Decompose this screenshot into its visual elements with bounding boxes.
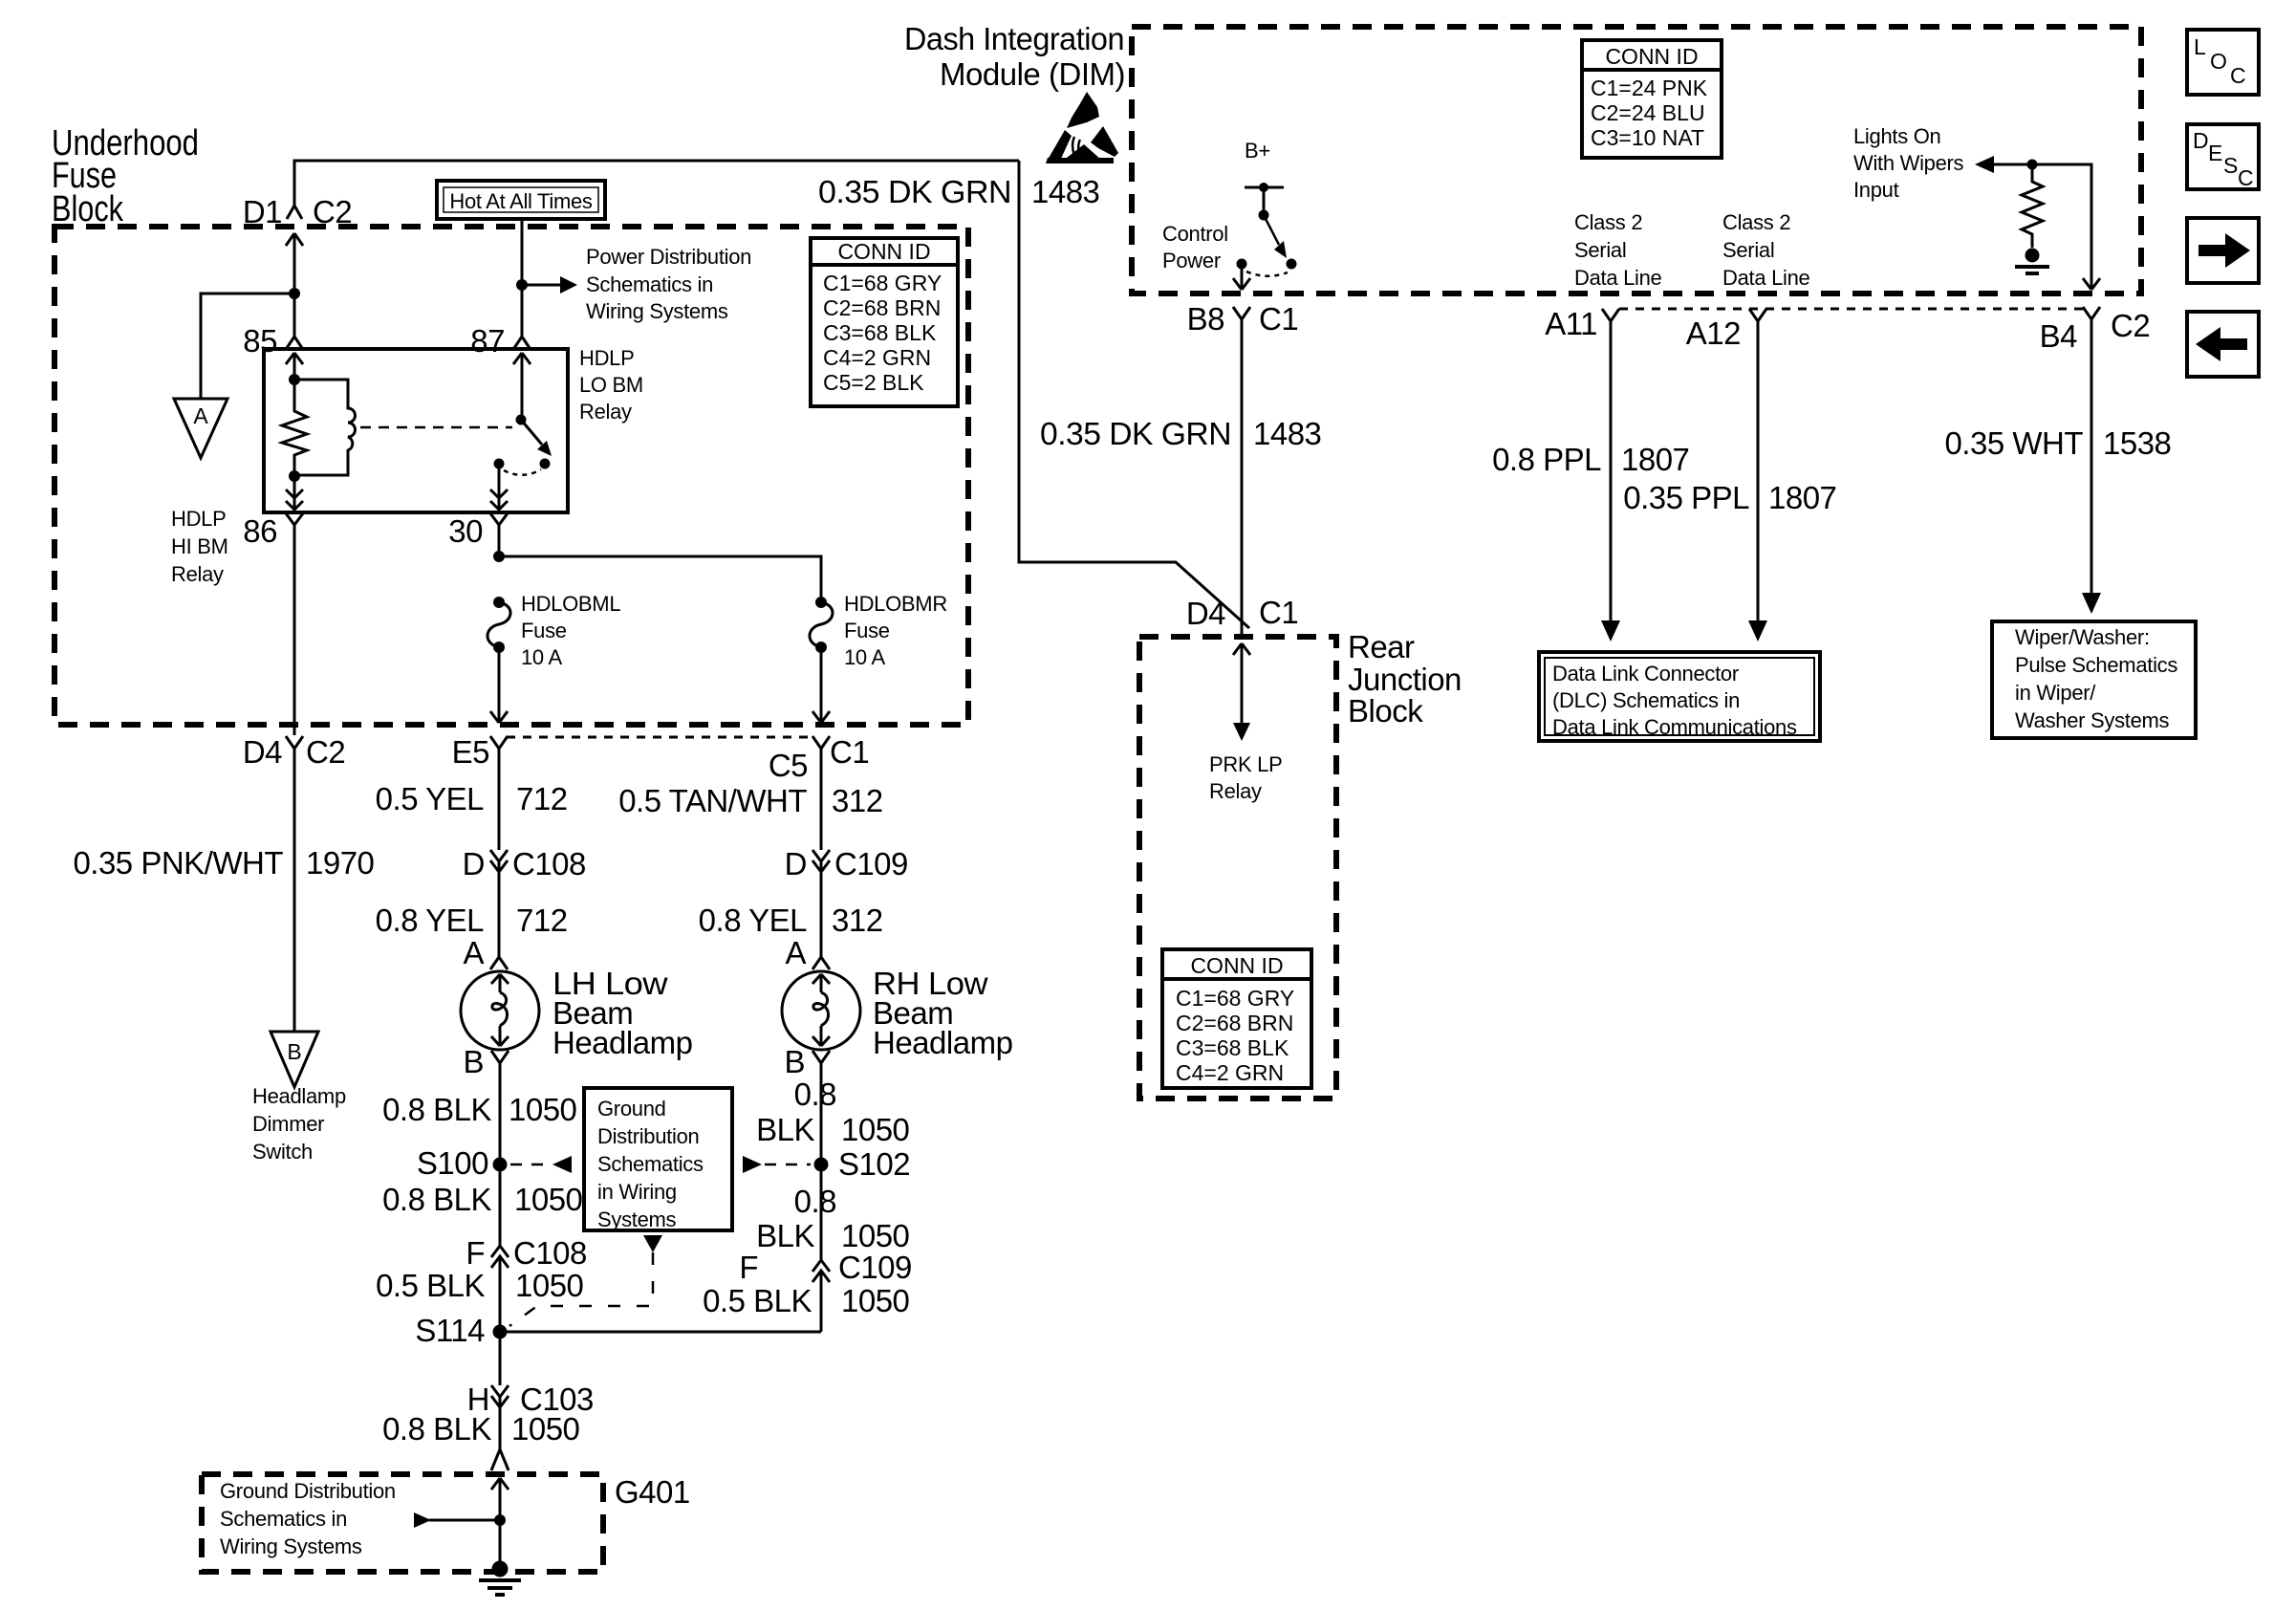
label 0.8 BLK 1050 (below S114) — [382, 1411, 579, 1447]
wire dimmer feed — [293, 761, 296, 1032]
svg-text:312: 312 — [832, 783, 883, 818]
svg-text:C2: C2 — [2111, 308, 2150, 343]
svg-text:Headlamp: Headlamp — [873, 1025, 1012, 1060]
svg-text:D4: D4 — [243, 734, 282, 770]
label Control Power — [1162, 222, 1228, 272]
svg-text:S100: S100 — [417, 1145, 488, 1181]
connector D1 C2 fork — [287, 206, 302, 219]
ESD sensitive symbol — [1046, 92, 1118, 163]
svg-text:Class 2: Class 2 — [1722, 210, 1790, 234]
LOC legend box — [2187, 30, 2259, 95]
svg-text:Distribution: Distribution — [597, 1124, 699, 1148]
svg-text:C108: C108 — [513, 1235, 587, 1271]
svg-text:C2: C2 — [306, 734, 345, 770]
svg-text:0.8 BLK: 0.8 BLK — [382, 1092, 491, 1127]
label F C109 — [739, 1250, 912, 1285]
Rear Junction Block dashed box — [1139, 637, 1336, 1099]
svg-text:0.8 YEL: 0.8 YEL — [699, 903, 807, 938]
Dash Integration Module dashed box — [1132, 27, 2141, 294]
svg-text:Data Link Communications: Data Link Communications — [1552, 715, 1797, 739]
pin A lambda RH — [812, 957, 830, 969]
relay HDLP LO BM box — [264, 349, 568, 512]
svg-text:1050: 1050 — [841, 1283, 910, 1318]
svg-text:Dash Integration: Dash Integration — [904, 21, 1124, 56]
pin B fork LH — [491, 1051, 509, 1164]
svg-text:B: B — [784, 1044, 805, 1079]
svg-text:312: 312 — [832, 903, 883, 938]
svg-text:Module (DIM): Module (DIM) — [940, 56, 1125, 92]
connector D C108 chevrons — [490, 850, 508, 957]
svg-text:C109: C109 — [834, 846, 908, 881]
ground at resistor — [2015, 249, 2049, 274]
svg-text:C103: C103 — [520, 1382, 594, 1417]
svg-text:D1: D1 — [243, 194, 282, 229]
relay switch blade with arrowhead — [521, 420, 542, 445]
svg-text:1050: 1050 — [515, 1268, 584, 1303]
wire S100 to C108 — [499, 1164, 502, 1245]
node coil top — [289, 374, 300, 385]
svg-text:A: A — [785, 935, 806, 970]
relay output dot (30) — [494, 459, 505, 469]
svg-text:1807: 1807 — [1621, 442, 1689, 477]
ground box arrow down — [643, 1235, 662, 1252]
svg-text:0.35 PPL: 0.35 PPL — [1623, 480, 1749, 515]
svg-text:F: F — [466, 1235, 485, 1271]
fuse HDLOBML — [487, 597, 510, 653]
svg-text:0.35 PNK/WHT: 0.35 PNK/WHT — [73, 845, 283, 881]
svg-text:Power Distribution: Power Distribution — [586, 245, 751, 269]
wire 86 inside with double chevron — [286, 476, 303, 511]
svg-text:86: 86 — [243, 513, 277, 549]
svg-text:D: D — [463, 846, 485, 881]
label HDLP HI BM Relay — [171, 507, 228, 586]
label 0.35 DK GRN 1483 (top) — [818, 174, 1099, 209]
svg-text:C109: C109 — [838, 1250, 912, 1285]
label LH Low Beam Headlamp — [552, 966, 692, 1060]
resistor wiper input — [2022, 164, 2043, 248]
svg-text:C1=24 PNK: C1=24 PNK — [1591, 76, 1708, 100]
label 0.8 YEL 712 — [376, 903, 568, 938]
label D4 C1 — [1186, 595, 1298, 631]
label 0.8 PPL 1807 — [1492, 442, 1689, 477]
ground G401 symbol — [479, 1561, 521, 1596]
label 0.8 BLK 1050 (LH below S100) — [382, 1182, 582, 1217]
label D1 C2 — [243, 194, 352, 229]
RH Low Beam Headlamp bulb — [782, 971, 860, 1050]
wire S114 to C103 — [499, 1332, 502, 1385]
svg-text:C1=68 GRY: C1=68 GRY — [823, 271, 942, 295]
svg-text:HDLOBML: HDLOBML — [521, 592, 620, 616]
control power switch blade — [1264, 215, 1279, 245]
svg-text:1483: 1483 — [1031, 174, 1099, 209]
S100 dashed reference with arrow — [510, 1156, 572, 1173]
node junction at 85 branch — [289, 288, 300, 299]
svg-text:Block: Block — [52, 189, 124, 229]
wire lights-on to B4 — [1992, 164, 2091, 290]
wire B8 to D4 C1 — [1241, 335, 1244, 637]
svg-text:1050: 1050 — [841, 1218, 910, 1253]
svg-text:Junction: Junction — [1348, 662, 1462, 697]
label Headlamp Dimmer Switch — [252, 1084, 346, 1164]
label Power Distribution Schematics in Wiring Systems — [586, 245, 751, 323]
svg-text:C4=2 GRN: C4=2 GRN — [823, 345, 931, 370]
svg-text:CONN ID: CONN ID — [1190, 953, 1283, 978]
triangle A (HDLP HI BM Relay ref) — [174, 399, 227, 458]
svg-text:10 A: 10 A — [844, 645, 885, 669]
svg-text:G401: G401 — [615, 1474, 690, 1510]
label Class 2 Serial Data Line (A11) — [1574, 210, 1662, 290]
wire E5 to C108 — [498, 761, 501, 850]
svg-text:A: A — [193, 403, 208, 428]
svg-text:0.8: 0.8 — [794, 1077, 836, 1112]
label 0.35 PNK/WHT 1970 — [73, 845, 374, 881]
svg-text:C3=68 BLK: C3=68 BLK — [1176, 1035, 1289, 1060]
wire to power distribution arrow — [522, 284, 560, 287]
svg-text:O: O — [2210, 49, 2227, 74]
svg-text:0.5 BLK: 0.5 BLK — [376, 1268, 485, 1303]
lights-on arrow left — [1975, 156, 1994, 173]
svg-text:C3=10 NAT: C3=10 NAT — [1591, 125, 1704, 150]
S102 dashed reference with arrow — [743, 1156, 811, 1173]
svg-text:0.5 BLK: 0.5 BLK — [703, 1283, 812, 1318]
svg-text:Headlamp: Headlamp — [552, 1025, 692, 1060]
svg-text:C5=2 BLK: C5=2 BLK — [823, 370, 924, 395]
svg-text:B4: B4 — [2040, 318, 2078, 354]
svg-text:Switch: Switch — [252, 1140, 313, 1164]
svg-text:0.5 TAN/WHT: 0.5 TAN/WHT — [618, 783, 807, 818]
svg-text:Schematics in: Schematics in — [586, 272, 713, 296]
connector A12 fork — [1749, 309, 1766, 620]
relay switch input arrow (87) — [513, 353, 531, 420]
label D C108 — [463, 846, 586, 881]
svg-text:A: A — [463, 935, 484, 970]
connector F C108 chevrons up — [491, 1246, 509, 1332]
svg-text:HDLP: HDLP — [579, 346, 635, 370]
node resistor tap — [2027, 160, 2038, 170]
node coil bottom — [289, 470, 300, 482]
wire to right fuse — [499, 556, 821, 601]
right arrow legend box — [2187, 218, 2259, 283]
svg-text:B: B — [463, 1044, 484, 1079]
control power travel dotted arc — [1246, 272, 1288, 276]
svg-text:1538: 1538 — [2103, 425, 2171, 461]
fuse HDLOBMR — [810, 597, 833, 653]
connector D4 C2 fork — [286, 736, 303, 761]
G401 dashed box — [202, 1474, 603, 1572]
left arrow legend box — [2187, 312, 2259, 377]
pin B fork RH — [812, 1051, 830, 1164]
connector line A11 to B4 — [1619, 308, 2083, 311]
wire: DIM drop down to Rear Junction diagonal — [1019, 161, 1249, 628]
svg-text:0.35 DK GRN: 0.35 DK GRN — [818, 174, 1011, 209]
splice S102 — [814, 1158, 829, 1172]
svg-text:C5: C5 — [769, 748, 808, 783]
Data Link Connector box — [1539, 652, 1820, 741]
svg-text:E: E — [2208, 141, 2222, 165]
pin A lambda LH — [490, 957, 508, 969]
svg-text:Serial: Serial — [1722, 238, 1774, 262]
svg-text:C3=68 BLK: C3=68 BLK — [823, 320, 937, 345]
svg-text:HDLOBMR: HDLOBMR — [844, 592, 947, 616]
label 0.5 YEL 712 — [376, 781, 568, 816]
svg-text:0.35 DK GRN: 0.35 DK GRN — [1040, 416, 1231, 451]
svg-text:S114: S114 — [415, 1313, 485, 1348]
label 0.5 BLK 1050 (LH) — [376, 1268, 583, 1303]
DESC legend box — [2187, 124, 2259, 190]
svg-text:Wiring Systems: Wiring Systems — [220, 1534, 362, 1558]
svg-text:1970: 1970 — [306, 845, 375, 881]
relay switch contact dot — [540, 459, 551, 469]
label F C108 — [466, 1235, 587, 1271]
svg-text:Dimmer: Dimmer — [252, 1112, 324, 1136]
svg-text:Ground Distribution: Ground Distribution — [220, 1479, 396, 1503]
svg-text:712: 712 — [516, 781, 568, 816]
pin 86 fork below relay — [286, 513, 303, 545]
node fuse feed split — [493, 551, 505, 562]
resistor in relay — [282, 380, 307, 476]
label Lights On With Wipers Input — [1853, 124, 1964, 202]
label B4 C2 — [2040, 308, 2151, 354]
wire B4 to wiper box — [2090, 335, 2093, 593]
svg-text:Fuse: Fuse — [521, 619, 567, 642]
label 0.8 BLK 1050 (LH above S100) — [382, 1092, 576, 1127]
svg-text:Wiring Systems: Wiring Systems — [586, 299, 728, 323]
svg-text:C: C — [2230, 63, 2246, 88]
label C5 C1 — [769, 734, 869, 783]
wire S102 to C109 — [820, 1164, 823, 1259]
svg-text:1050: 1050 — [841, 1112, 910, 1147]
svg-text:L: L — [2194, 34, 2206, 59]
label 0.8 YEL 312 — [699, 903, 883, 938]
PRK LP relay double arrow — [1233, 643, 1250, 741]
label Underhood Fuse Block — [52, 123, 199, 229]
svg-text:D: D — [2193, 128, 2209, 153]
svg-text:C1: C1 — [1259, 595, 1298, 630]
wire below right fuse with arrow at border — [812, 647, 830, 723]
connector B4 C2 fork — [2083, 307, 2100, 335]
relay switch travel dotted arc — [504, 469, 541, 475]
wire 85 down to relay — [293, 294, 296, 337]
CONN ID box Rear Junction — [1162, 949, 1311, 1088]
connector C5 C1 fork — [812, 736, 830, 761]
dashed reference to S114 — [509, 1252, 653, 1326]
connector A11 fork — [1602, 309, 1619, 620]
wire A12 arrow to DLC — [1748, 620, 1767, 642]
svg-text:CONN ID: CONN ID — [837, 239, 930, 264]
svg-text:10 A: 10 A — [521, 645, 562, 669]
svg-text:CONN ID: CONN ID — [1605, 44, 1698, 69]
svg-text:Relay: Relay — [579, 400, 632, 424]
svg-text:D4: D4 — [1186, 596, 1225, 631]
connector B8 C1 fork — [1233, 307, 1250, 335]
svg-text:Class 2: Class 2 — [1574, 210, 1642, 234]
relay actuation dashed link — [360, 426, 512, 429]
svg-text:Systems: Systems — [597, 1207, 677, 1231]
wire A11 arrow to DLC — [1601, 620, 1620, 642]
svg-text:Headlamp: Headlamp — [252, 1084, 346, 1108]
svg-text:S102: S102 — [838, 1146, 910, 1182]
label RH Low Beam Headlamp — [873, 966, 1012, 1060]
pin 87 fork — [514, 337, 530, 348]
svg-text:(DLC) Schematics in: (DLC) Schematics in — [1552, 688, 1740, 712]
label HDLP LO BM Relay — [579, 346, 643, 424]
Underhood Fuse Block dashed box — [54, 227, 968, 725]
svg-text:With Wipers: With Wipers — [1853, 151, 1964, 175]
svg-text:A11: A11 — [1545, 306, 1597, 341]
wire B8 output with arrow — [1233, 264, 1250, 290]
svg-text:Rear: Rear — [1348, 629, 1415, 664]
wire from Hot At All Times down — [521, 219, 524, 337]
svg-text:Fuse: Fuse — [844, 619, 890, 642]
control power contact dot left — [1237, 259, 1247, 270]
svg-text:0.8 YEL: 0.8 YEL — [376, 903, 484, 938]
wire RH ground return to S114 — [500, 1331, 821, 1334]
ground ref arrow — [414, 1512, 500, 1528]
label Rear Junction Block — [1348, 629, 1462, 729]
svg-text:Block: Block — [1348, 693, 1423, 729]
label PRK LP Relay — [1209, 752, 1282, 803]
svg-text:0.8: 0.8 — [794, 1184, 836, 1219]
svg-text:E5: E5 — [452, 734, 489, 770]
svg-text:0.8 BLK: 0.8 BLK — [382, 1182, 491, 1217]
svg-text:BLK: BLK — [756, 1112, 814, 1147]
label D4 C2 — [243, 734, 345, 770]
arrow into DIM border at B4 — [2083, 278, 2100, 290]
svg-text:Power: Power — [1162, 249, 1221, 272]
svg-text:C2=68 BRN: C2=68 BRN — [823, 295, 941, 320]
svg-text:F: F — [739, 1250, 758, 1285]
label 0.5 BLK 1050 (RH) — [703, 1283, 909, 1318]
Hot At All Times box — [437, 181, 605, 219]
svg-text:C2=24 BLU: C2=24 BLU — [1591, 100, 1705, 125]
ground entry arrow — [491, 1478, 509, 1562]
wire: top feed from D1 C2 to DIM drop — [294, 161, 1019, 206]
splice S100 — [493, 1158, 508, 1172]
relay coil — [294, 380, 356, 475]
svg-text:87: 87 — [470, 323, 505, 359]
CONN ID box DIM — [1582, 40, 1722, 158]
svg-text:1050: 1050 — [509, 1092, 577, 1127]
svg-text:C1: C1 — [1259, 301, 1298, 337]
pin 85 fork — [287, 337, 302, 348]
relay switch pivot — [516, 415, 527, 425]
label H C103 — [467, 1382, 594, 1417]
node power distribution branch — [516, 279, 528, 291]
wire below left fuse with arrow at border — [490, 647, 508, 723]
connector E5 fork — [490, 736, 508, 761]
label D C109 — [785, 846, 908, 881]
svg-text:C2: C2 — [313, 194, 352, 229]
svg-text:D: D — [785, 846, 807, 881]
svg-text:S: S — [2223, 153, 2238, 178]
svg-text:1050: 1050 — [514, 1182, 583, 1217]
label Class 2 Serial Data Line (A12) — [1722, 210, 1810, 290]
svg-text:0.5 YEL: 0.5 YEL — [376, 781, 484, 816]
connector line E5 to C5 — [507, 736, 814, 739]
svg-text:1807: 1807 — [1768, 480, 1836, 515]
label Ground Distribution Schematics in Wiring Systems (G401) — [220, 1479, 396, 1558]
svg-text:in Wiring: in Wiring — [597, 1180, 677, 1204]
label B8 C1 — [1187, 301, 1299, 337]
G401 lambda fork — [491, 1449, 509, 1470]
connector F C109 chevrons up — [812, 1260, 830, 1332]
svg-text:C: C — [2238, 165, 2254, 190]
Ground Distribution Schematics box (splice ref) — [584, 1088, 732, 1231]
svg-text:0.8 PPL: 0.8 PPL — [1492, 442, 1601, 477]
svg-text:A12: A12 — [1686, 315, 1741, 351]
svg-text:in Wiper/: in Wiper/ — [2015, 681, 2096, 705]
svg-text:HDLP: HDLP — [171, 507, 227, 531]
svg-text:Lights On: Lights On — [1853, 124, 1940, 148]
label 0.5 TAN/WHT 312 — [618, 783, 882, 818]
control power switch stem — [1263, 187, 1266, 215]
CONN ID box underhood — [811, 238, 958, 406]
svg-text:Wiper/Washer:: Wiper/Washer: — [2015, 625, 2150, 649]
svg-text:Data Line: Data Line — [1574, 266, 1662, 290]
B+ terminal bar — [1245, 186, 1284, 189]
svg-text:Data Line: Data Line — [1722, 266, 1810, 290]
Wiper/Washer box — [1992, 621, 2196, 738]
label 0.35 PPL 1807 — [1623, 480, 1836, 515]
wire C5 to C109 — [820, 761, 823, 850]
svg-text:HI BM: HI BM — [171, 534, 228, 558]
svg-text:B+: B+ — [1245, 139, 1270, 163]
splice S114 — [493, 1325, 508, 1339]
svg-text:Control: Control — [1162, 222, 1228, 246]
svg-text:Data Link Connector: Data Link Connector — [1552, 662, 1739, 685]
connector D1 C2 arrow below border — [286, 233, 303, 294]
wire branch to triangle A — [201, 294, 294, 399]
triangle B (Headlamp Dimmer Switch ref) — [271, 1032, 318, 1087]
connector D C109 chevrons — [812, 850, 830, 957]
LH Low Beam Headlamp bulb — [461, 971, 539, 1050]
svg-text:0.35 WHT: 0.35 WHT — [1944, 425, 2083, 461]
control power contact dot right — [1287, 259, 1297, 270]
label 0.8 BLK 1050 (RH above S102) — [756, 1077, 909, 1147]
svg-text:Relay: Relay — [171, 562, 224, 586]
svg-text:C2=68 BRN: C2=68 BRN — [1176, 1011, 1293, 1035]
svg-text:Hot At All Times: Hot At All Times — [449, 189, 593, 213]
svg-text:Relay: Relay — [1209, 779, 1262, 803]
svg-text:Serial: Serial — [1574, 238, 1626, 262]
svg-text:LO BM: LO BM — [579, 373, 643, 397]
svg-text:BLK: BLK — [756, 1218, 814, 1253]
svg-text:C1: C1 — [830, 734, 869, 770]
svg-text:PRK LP: PRK LP — [1209, 752, 1282, 776]
svg-text:Ground: Ground — [597, 1097, 666, 1120]
label 0.35 WHT 1538 — [1944, 425, 2171, 461]
svg-text:C108: C108 — [512, 846, 586, 881]
node ground junction — [494, 1514, 506, 1526]
svg-text:C4=2 GRN: C4=2 GRN — [1176, 1060, 1284, 1085]
svg-text:B: B — [287, 1039, 301, 1064]
svg-text:85: 85 — [243, 323, 277, 359]
svg-text:712: 712 — [516, 903, 568, 938]
label HDLOBMR Fuse 10 A — [844, 592, 947, 669]
svg-text:C1=68 GRY: C1=68 GRY — [1176, 986, 1294, 1011]
connector H C103 chevrons — [491, 1385, 509, 1449]
svg-text:Washer Systems: Washer Systems — [2015, 708, 2170, 732]
label 0.35 DK GRN 1483 (mid) — [1040, 416, 1321, 451]
svg-text:Input: Input — [1853, 178, 1899, 202]
svg-text:B8: B8 — [1187, 301, 1224, 337]
label HDLOBML Fuse 10 A — [521, 592, 620, 669]
svg-text:Schematics in: Schematics in — [220, 1507, 347, 1531]
label 0.8 BLK 1050 (RH below S102) — [756, 1184, 909, 1253]
svg-text:1483: 1483 — [1253, 416, 1321, 451]
svg-text:30: 30 — [448, 513, 483, 549]
wire 30 inside with double chevron — [490, 464, 508, 511]
